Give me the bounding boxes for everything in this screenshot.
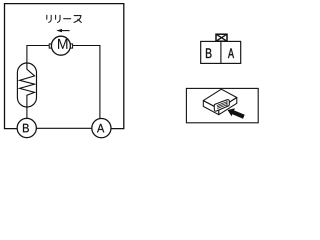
pointer arrow (black) <box>228 108 245 119</box>
terminal B <box>17 118 36 137</box>
connector pinout: body with pins B and A <box>201 41 241 63</box>
wire B top to resistor <box>26 107 28 118</box>
connector illustration (isometric housing) <box>203 89 237 115</box>
connector socket detail <box>214 100 229 111</box>
wire B to A <box>36 127 92 129</box>
connector pinout: lock tab (crossed box) <box>216 34 227 41</box>
wire loop (outer frame from terminal B up over the top and down to terminal A) <box>5 4 124 129</box>
direction arrow (release direction) <box>56 29 69 32</box>
wire motor right to A top <box>73 46 100 119</box>
label リリース (release) drawn as paths <box>47 15 82 22</box>
resistor (solenoid) capsule <box>17 63 36 107</box>
motor M (with brush terminals) <box>49 36 72 55</box>
connector photo frame <box>186 88 258 122</box>
wire resistor top to motor left <box>27 46 49 64</box>
terminal A <box>92 119 111 138</box>
